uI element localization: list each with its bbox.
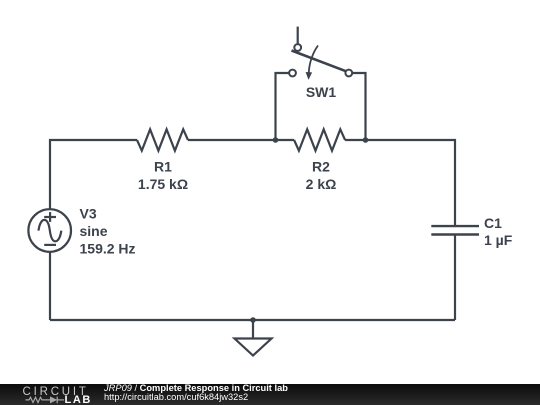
footer title text [104,384,288,403]
svg-text:SW1: SW1 [306,84,337,100]
R2 label and value 2 kΩ [306,159,337,193]
resistor R1 [137,129,188,150]
CircuitLab logo [0,384,100,405]
svg-text:LAB: LAB [65,394,92,405]
wire: node B to top-right corner [345,140,455,226]
wire: V3 bottom lead [49,252,51,320]
wire: SW1 common stub [297,27,299,44]
resistor R2 [294,129,345,150]
wire: C1 bottom lead [454,235,456,321]
svg-text:R2: R2 [312,159,330,175]
wire: R1 to node A [188,139,294,141]
svg-text:C1: C1 [484,215,502,231]
junction: ground node [250,317,256,323]
svg-text:1 µF: 1 µF [484,232,513,248]
svg-text:1.75 kΩ: 1.75 kΩ [138,176,188,192]
junction node A [273,137,279,143]
wire: SW1 left branch from node A [276,73,290,140]
wire: bottom rail [50,319,455,321]
footer bar [0,384,540,405]
svg-text:159.2 Hz: 159.2 Hz [80,241,136,257]
wire top-left: left corner to R1 [50,140,137,209]
ground [235,320,272,356]
capacitor C1 [431,226,479,234]
R1 label and value 1.75 kΩ [138,159,188,193]
svg-text:R1: R1 [154,159,172,175]
svg-text:V3: V3 [80,206,97,222]
V3 label, type and value 159.2 Hz [80,206,136,257]
switch SW1 [289,44,352,80]
wire: SW1 right branch to node B [352,73,365,140]
C1 label and value 1 µF [484,215,513,248]
svg-text:2 kΩ: 2 kΩ [306,176,337,192]
svg-text:sine: sine [80,223,108,239]
voltage source V3 [28,209,71,252]
junction node B [363,137,369,143]
